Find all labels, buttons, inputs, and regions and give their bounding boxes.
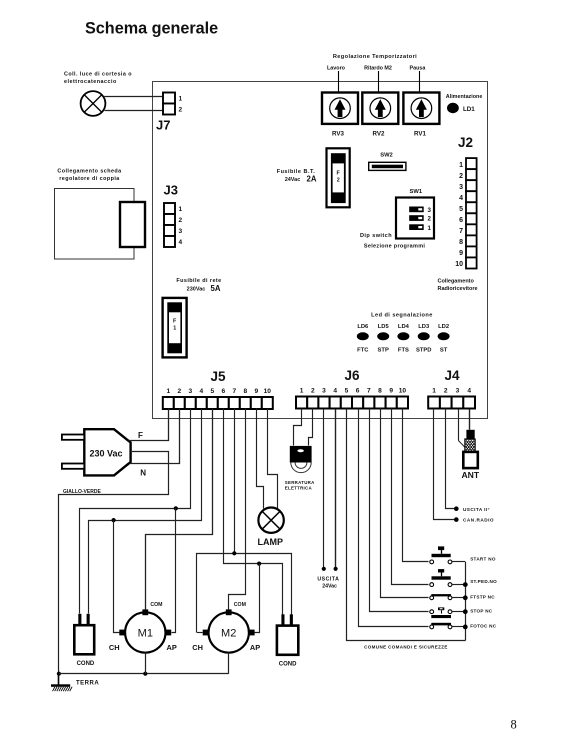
svg-text:3: 3: [188, 388, 192, 395]
connector J4: [428, 397, 475, 409]
svg-text:J4: J4: [444, 368, 460, 383]
led LD2 (ST): [438, 324, 450, 353]
label Lavoro: [327, 66, 346, 72]
svg-text:GIALLO-VERDE: GIALLO-VERDE: [63, 489, 101, 495]
svg-text:1: 1: [432, 388, 436, 395]
label Fusibile di rete 230Vac 5A: [176, 278, 221, 293]
label FTSTP NC: [470, 595, 495, 600]
J6 pin labels 1-10: [300, 388, 407, 395]
label COND right: [279, 662, 297, 668]
switch SW2: [369, 153, 406, 171]
svg-text:Coll. luce di cortesia o: Coll. luce di cortesia o: [64, 72, 132, 78]
board outline: [153, 82, 488, 419]
junction common FOTOC: [463, 625, 468, 630]
svg-text:Lavoro: Lavoro: [327, 66, 346, 72]
svg-text:LAMP: LAMP: [258, 537, 284, 547]
svg-text:Pausa: Pausa: [410, 66, 427, 72]
svg-text:N: N: [140, 469, 146, 478]
svg-text:2: 2: [179, 107, 183, 114]
label ST.PED.NO: [470, 579, 497, 584]
svg-text:START NO: START NO: [470, 556, 496, 561]
J3 pin labels 1-4: [179, 206, 183, 246]
svg-text:6: 6: [221, 388, 225, 395]
svg-text:8: 8: [459, 239, 463, 246]
svg-text:CAN.RADIO: CAN.RADIO: [463, 518, 494, 523]
page number: [511, 718, 517, 732]
svg-text:4: 4: [333, 388, 337, 395]
label CH M2: [192, 643, 203, 652]
svg-text:COM: COM: [150, 602, 162, 608]
wire N: plug to J5 pin2: [131, 409, 180, 464]
label FOTOC NC: [470, 623, 497, 628]
wire J5 pin5 to M1 COM: [146, 409, 213, 610]
label N neutral: [140, 469, 146, 478]
svg-text:2A: 2A: [307, 175, 317, 184]
trimmer RV3: [322, 71, 358, 138]
wire lamp to J7 pin2: [105, 110, 163, 112]
svg-text:10: 10: [399, 388, 407, 395]
trimmer RV1: [403, 71, 439, 138]
label ANT: [461, 470, 479, 480]
wire J6 pin4 to 24Vac out: [334, 409, 338, 571]
label F phase: [138, 431, 143, 440]
wire J6 pin3 to 24Vac out: [322, 409, 326, 571]
svg-text:2: 2: [177, 388, 181, 395]
svg-text:M1: M1: [138, 628, 153, 640]
svg-text:4: 4: [179, 239, 183, 246]
svg-text:STP: STP: [378, 348, 389, 354]
svg-text:Radioricevitore: Radioricevitore: [438, 286, 478, 292]
svg-text:LD4: LD4: [398, 324, 410, 330]
svg-text:9: 9: [254, 388, 258, 395]
capacitor COND left: [74, 614, 94, 655]
wire J5 pin7 to M2 CH and COND-right: [197, 409, 292, 633]
svg-text:2: 2: [444, 388, 448, 395]
svg-text:J2: J2: [458, 135, 473, 150]
svg-text:6: 6: [356, 388, 360, 395]
svg-text:24Vac: 24Vac: [322, 583, 337, 589]
wire J6 pin1 to lock: [294, 409, 302, 446]
pushbutton STOP NC: [430, 607, 465, 618]
label USCITA 24Vac: [317, 576, 339, 589]
wire J5 pin6 to COND-right and M2 AP: [224, 409, 283, 615]
svg-text:5: 5: [210, 388, 214, 395]
svg-text:Schema generale: Schema generale: [85, 20, 218, 38]
wire earth giallo-verde: [59, 452, 169, 674]
svg-text:elettrocatenaccio: elettrocatenaccio: [64, 79, 117, 85]
svg-text:J3: J3: [164, 183, 178, 198]
label LAMP: [258, 537, 284, 547]
label COND left: [77, 661, 95, 667]
svg-text:FTS: FTS: [398, 348, 409, 354]
svg-text:USCITA: USCITA: [317, 576, 339, 582]
svg-text:1: 1: [173, 326, 176, 332]
wire J6 pin2 to lock: [309, 409, 313, 446]
svg-text:Selezione programmi: Selezione programmi: [364, 243, 425, 249]
wire J6 pin9 to ST.PED: [392, 409, 429, 585]
svg-text:Regolazione Temporizzatori: Regolazione Temporizzatori: [333, 54, 417, 60]
wire ground bus to motors: [59, 673, 229, 675]
pushbutton FTSTP NC: [430, 594, 465, 600]
svg-text:4: 4: [199, 388, 203, 395]
svg-text:COND: COND: [279, 662, 297, 668]
svg-text:CH: CH: [192, 643, 203, 652]
label USCITA II CAN.RADIO: [463, 507, 494, 522]
J4 designator: [444, 368, 460, 383]
svg-text:COMUNE COMANDI E SICUREZZE: COMUNE COMANDI E SICUREZZE: [364, 645, 448, 650]
label STOP NC: [470, 609, 493, 614]
svg-text:8: 8: [511, 718, 517, 732]
junction J5-3 branch AP: [174, 506, 178, 510]
svg-text:3: 3: [322, 388, 326, 395]
J4 pin labels 1-4: [432, 388, 471, 395]
svg-text:4: 4: [467, 388, 471, 395]
svg-text:ELETTRICA: ELETTRICA: [285, 485, 313, 490]
svg-text:7: 7: [232, 388, 236, 395]
svg-text:AP: AP: [167, 643, 177, 652]
svg-text:9: 9: [389, 388, 393, 395]
connector J7: [163, 93, 175, 115]
label GIALLO-VERDE: [63, 489, 101, 495]
junction J5-4 branch CH: [112, 518, 116, 522]
label torque regulator: [57, 169, 122, 182]
svg-text:5: 5: [459, 206, 463, 213]
svg-text:STOP NC: STOP NC: [470, 609, 493, 614]
svg-text:1: 1: [300, 388, 304, 395]
svg-text:230 Vac: 230 Vac: [89, 449, 122, 459]
svg-text:F: F: [138, 431, 143, 440]
J7 pin 2 label: [179, 107, 183, 114]
junction common ST.PED: [463, 582, 468, 587]
svg-text:7: 7: [367, 388, 371, 395]
label COM M2: [234, 602, 246, 608]
svg-text:LD1: LD1: [463, 106, 475, 113]
svg-text:FOTOC NC: FOTOC NC: [470, 623, 497, 628]
svg-text:FTSTP NC: FTSTP NC: [470, 595, 495, 600]
wire J5 pin4 to COND-left and M1 CH: [89, 409, 202, 614]
svg-text:LD6: LD6: [357, 324, 369, 330]
title Schema generale: [85, 20, 218, 38]
lamp: courtesy light / electric latch: [81, 91, 106, 116]
led LD1: [447, 103, 459, 113]
svg-text:STPD: STPD: [416, 348, 431, 354]
svg-text:4: 4: [459, 195, 463, 202]
wire J4 pin2 to uscita II: [446, 409, 459, 512]
svg-text:RV3: RV3: [332, 131, 344, 138]
trimmer RV2: [362, 71, 398, 138]
wire M1 to ground: [145, 653, 147, 674]
wire J4 pin4 to antenna: [469, 409, 471, 430]
svg-text:FTC: FTC: [357, 348, 369, 354]
wire common bus: [465, 562, 467, 641]
svg-text:8: 8: [243, 388, 247, 395]
svg-text:J6: J6: [344, 368, 360, 383]
svg-text:ANT: ANT: [461, 470, 479, 480]
wire branch to M1 AP: [172, 509, 176, 633]
svg-text:COND: COND: [77, 661, 95, 667]
pushbutton ST.PED.NO: [430, 569, 465, 586]
J5 designator: [210, 369, 226, 384]
svg-text:8: 8: [378, 388, 382, 395]
junction J5-6 branch AP2: [257, 562, 261, 566]
junction common STOP: [463, 609, 468, 614]
motor M1: [119, 609, 171, 652]
svg-text:7: 7: [459, 228, 463, 235]
svg-text:9: 9: [459, 250, 463, 257]
mains plug 230 Vac: [62, 429, 131, 475]
LD1 designator: [463, 106, 475, 113]
wire lamp to J7 pin1: [104, 96, 163, 98]
svg-text:Collegamento scheda: Collegamento scheda: [57, 169, 122, 175]
J3 designator: [164, 183, 178, 198]
wire J6 pin5 common: [347, 409, 466, 641]
pushbutton FOTOC NC: [430, 623, 465, 629]
svg-text:LD5: LD5: [378, 324, 390, 330]
ground TERRA: [51, 672, 72, 692]
torque regulator connector block: [120, 202, 145, 247]
antenna ANT: [463, 430, 478, 468]
wire J5 pin10 to LAMP right: [268, 409, 278, 509]
led LD3 (STPD): [416, 324, 431, 353]
connector J2: [466, 158, 477, 268]
svg-text:LD3: LD3: [418, 324, 430, 330]
pushbutton START NO: [430, 546, 465, 563]
capacitor COND right: [277, 614, 298, 655]
svg-text:230Vac: 230Vac: [187, 287, 206, 293]
svg-text:3: 3: [459, 184, 463, 191]
svg-text:Alimentazione: Alimentazione: [446, 94, 483, 100]
label Collegamento Radioricevitore: [438, 279, 478, 292]
svg-text:USCITA II°: USCITA II°: [463, 507, 490, 512]
wire J6 pin6 to FOTOC: [359, 409, 429, 627]
svg-text:Led di segnalazione: Led di segnalazione: [371, 312, 433, 318]
svg-text:CH: CH: [109, 643, 120, 652]
junction J5-7: [232, 551, 236, 555]
wire J5 pin8 to M2 COM: [229, 409, 246, 610]
svg-text:ST: ST: [440, 348, 448, 354]
svg-text:J5: J5: [210, 369, 226, 384]
label Pausa: [410, 66, 427, 72]
wire branch to M1 CH: [114, 521, 120, 633]
svg-text:Dip switch: Dip switch: [360, 233, 392, 239]
led LD6 (FTC): [357, 324, 369, 353]
svg-text:1: 1: [459, 162, 463, 169]
svg-text:2: 2: [337, 178, 340, 184]
wire F: plug to J5 pin1: [129, 409, 169, 441]
svg-text:Collegamento: Collegamento: [438, 279, 475, 285]
svg-text:SERRATURA: SERRATURA: [285, 480, 315, 485]
fuse F2: [327, 148, 350, 207]
svg-text:2: 2: [311, 388, 315, 395]
led LD5 (STP): [377, 324, 389, 353]
label CH M1: [109, 643, 120, 652]
label courtesy lamp: [64, 72, 132, 85]
connector J5: [163, 397, 273, 409]
wire M2 to ground: [228, 653, 230, 674]
svg-text:24Vac: 24Vac: [285, 177, 301, 183]
label Fusibile B.T. 24Vac 2A: [277, 169, 317, 184]
wire J6 pin8 to FTSTP: [381, 409, 429, 598]
label Led di segnalazione: [371, 312, 433, 318]
J7 pin 1 label: [179, 95, 183, 102]
label Selezione programmi: [364, 243, 425, 249]
connector J3: [164, 203, 175, 247]
motor M2: [203, 609, 255, 652]
svg-text:2: 2: [428, 216, 432, 223]
svg-text:J7: J7: [156, 118, 170, 133]
svg-text:RV2: RV2: [373, 131, 385, 138]
label SERRATURA ELETTRICA: [285, 480, 315, 490]
electric lock (serratura elettrica): [290, 446, 312, 473]
J2 pin labels 1-10: [455, 162, 463, 268]
wire J5 pin3 to COND-left and M1 AP: [80, 409, 191, 614]
junction ground at M1: [143, 672, 147, 676]
svg-text:M2: M2: [221, 628, 236, 640]
svg-text:Ritardo M2: Ritardo M2: [364, 66, 392, 72]
wire J4 pin3 to antenna shield: [458, 409, 465, 447]
svg-text:2: 2: [179, 217, 183, 224]
label Regolazione Temporizzatori: [333, 54, 417, 60]
wire J6 pin7 to STOP: [370, 409, 429, 612]
J5 pin labels 1-10: [166, 388, 271, 395]
svg-text:1: 1: [179, 206, 183, 213]
label AP M2: [250, 643, 260, 652]
svg-text:ST.PED.NO: ST.PED.NO: [470, 579, 497, 584]
svg-text:5: 5: [345, 388, 349, 395]
svg-text:5A: 5A: [211, 284, 221, 293]
svg-text:1: 1: [166, 388, 170, 395]
label Ritardo M2: [364, 66, 392, 72]
svg-text:regolatore di coppia: regolatore di coppia: [59, 176, 120, 182]
svg-text:3: 3: [428, 207, 432, 214]
svg-text:2: 2: [459, 173, 463, 180]
svg-text:SW1: SW1: [410, 189, 423, 195]
wire J6 pin10 to START: [403, 409, 429, 562]
junction common FTSTP: [463, 595, 468, 600]
svg-text:3: 3: [179, 228, 183, 235]
label TERRA: [76, 680, 99, 686]
svg-text:AP: AP: [250, 643, 260, 652]
dip switch SW1: [396, 189, 434, 238]
fuse F1: [163, 298, 187, 358]
svg-text:1: 1: [179, 95, 183, 102]
J6 designator: [344, 368, 360, 383]
led LD4 (FTS): [397, 324, 409, 353]
J7 designator: [156, 118, 170, 133]
svg-text:COM: COM: [234, 602, 246, 608]
wire J5 pin9 to LAMP left: [257, 409, 264, 509]
lamp LAMP: [258, 508, 283, 533]
label AP M1: [167, 643, 177, 652]
svg-text:1: 1: [428, 225, 432, 232]
svg-text:RV1: RV1: [414, 131, 426, 138]
svg-text:10: 10: [455, 261, 463, 268]
svg-text:LD2: LD2: [438, 324, 449, 330]
label Dip switch: [360, 233, 392, 239]
svg-text:SW2: SW2: [380, 153, 393, 159]
svg-text:TERRA: TERRA: [76, 680, 99, 686]
connector J6: [296, 397, 408, 409]
label COMUNE COMANDI E SICUREZZE: [364, 645, 448, 650]
label COM M1: [150, 602, 162, 608]
svg-text:10: 10: [264, 388, 272, 395]
wire J4 pin1 to can.radio: [434, 409, 459, 522]
label START NO: [470, 556, 496, 561]
J2 designator: [458, 135, 473, 150]
torque regulator board box: [55, 189, 135, 260]
svg-text:6: 6: [459, 217, 463, 224]
wire branch to M2 AP: [255, 564, 260, 633]
svg-text:3: 3: [456, 388, 460, 395]
label Alimentazione: [446, 94, 483, 100]
